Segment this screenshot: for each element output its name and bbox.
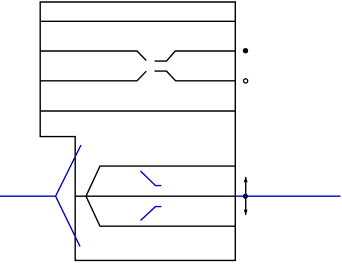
coupler lower-left arm — [40, 71, 146, 81]
Y-branch upper — [86, 166, 235, 196]
input beam — [0, 195, 56, 197]
waveguide mid — [40, 110, 235, 112]
beam lower ray — [56, 196, 80, 246]
center waveguide — [75, 195, 235, 197]
arrowhead down — [244, 210, 248, 216]
coupler upper-right arm — [155, 51, 236, 61]
substrate outline (stepped box) — [40, 2, 235, 260]
coupler upper-left arm — [40, 51, 146, 61]
arrow shaft — [245, 177, 247, 215]
upper mode arrow — [141, 171, 162, 186]
beam upper ray — [56, 145, 81, 196]
output port filled — [243, 48, 248, 53]
output beam — [236, 195, 341, 197]
lower mode arrow — [141, 207, 162, 221]
node dot — [243, 194, 248, 199]
waveguide top — [40, 20, 235, 22]
coupler lower-right arm — [155, 71, 236, 81]
Y-branch lower — [86, 196, 235, 226]
output port open — [244, 79, 248, 83]
arrowhead up — [244, 176, 248, 182]
